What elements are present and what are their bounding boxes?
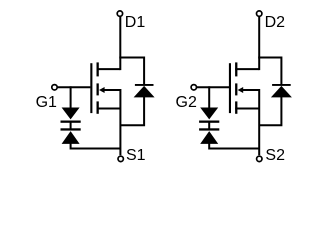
wire gate to ESD diodes Q1 [70, 86, 72, 108]
wire source to channel Q1 [97, 108, 121, 110]
wire body/source Q2 [243, 90, 260, 155]
svg-text:D1: D1 [125, 14, 146, 31]
wire source to channel Q2 [235, 108, 259, 110]
wire between ESD diodes Q2 [208, 122, 210, 130]
wire drain to channel Q2 [235, 68, 259, 70]
wire body/source Q1 [104, 90, 120, 155]
wire drain vertical Q2 [258, 17, 260, 70]
ESD protection diode bottom (cathode up) Q1 [61, 128, 81, 144]
svg-text:S1: S1 [126, 147, 146, 164]
ESD protection diode top (gate-source, cathode down) Q1 [61, 108, 81, 123]
svg-text:D2: D2 [265, 14, 286, 31]
terminal S1 [118, 156, 123, 161]
ESD protection diode top (gate-source, cathode down) Q2 [199, 108, 219, 123]
terminal D1 [117, 11, 122, 16]
wire gate G1 [58, 86, 91, 88]
transistor Q1 (N-channel MOSFET) [90, 62, 104, 113]
body diode of Q1 [134, 84, 155, 97]
svg-text:S2: S2 [265, 147, 285, 164]
wire drain to body-diode (top branch) Q1 [119, 58, 144, 86]
wire body-diode to source Q2 [259, 97, 281, 125]
ESD protection diode bottom (cathode up) Q2 [199, 128, 219, 144]
svg-text:G1: G1 [36, 94, 57, 111]
terminal S2 [257, 156, 262, 161]
transistor Q2 (N-channel MOSFET) [229, 62, 243, 113]
wire drain to body-diode (top branch) Q2 [258, 58, 281, 86]
terminal G1 [52, 85, 57, 90]
body diode of Q2 [271, 84, 292, 97]
terminal G2 [191, 85, 196, 90]
wire between ESD diodes Q1 [70, 122, 72, 130]
wire ESD diodes to source Q2 [209, 143, 259, 148]
wire ESD diodes to source Q1 [71, 143, 121, 148]
svg-text:G2: G2 [176, 94, 197, 111]
wire drain to channel Q1 [97, 68, 121, 70]
terminal D2 [257, 11, 262, 16]
wire gate to ESD diodes Q2 [208, 86, 210, 108]
wire gate G2 [197, 86, 229, 88]
wire drain vertical Q1 [119, 17, 121, 70]
wire body-diode to source Q1 [120, 97, 144, 125]
